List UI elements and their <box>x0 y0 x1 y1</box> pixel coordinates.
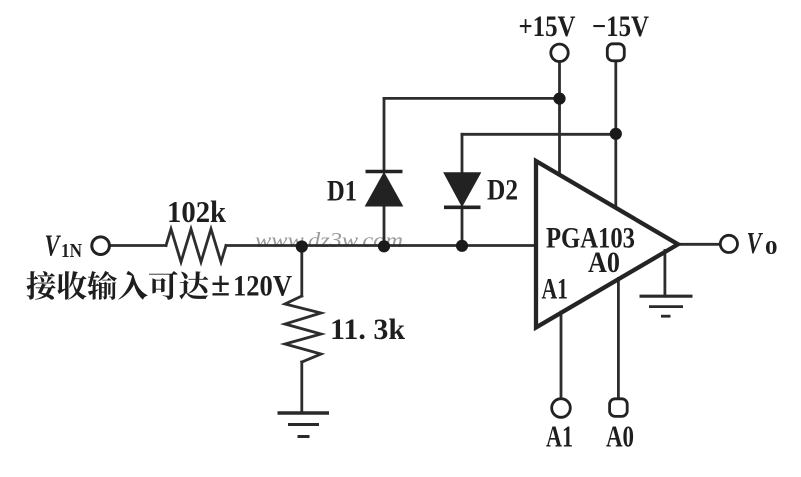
svg-text:D1: D1 <box>327 175 357 208</box>
svg-text:11. 3k: 11. 3k <box>330 313 405 346</box>
svg-text:−15V: −15V <box>592 10 649 43</box>
svg-text:A0: A0 <box>606 419 634 454</box>
wire: input to resistor R1 <box>109 244 166 247</box>
svg-text:V: V <box>747 225 764 260</box>
svg-text:1N: 1N <box>61 240 82 262</box>
terminal: V_IN <box>92 237 110 255</box>
wire: D2 top to -15V rail <box>462 133 616 136</box>
svg-text:102k: 102k <box>167 195 226 229</box>
wire: resistor R2 to ground <box>300 362 303 413</box>
resistor R1 102k <box>166 229 226 262</box>
wire: A1 pin down <box>560 312 563 398</box>
op-amp U1 PGA103 <box>536 161 678 328</box>
svg-text:+15V: +15V <box>519 10 576 43</box>
svg-text:±: ± <box>211 265 230 304</box>
svg-text:V: V <box>45 228 62 263</box>
wire: node to resistor R2 <box>300 247 303 297</box>
node: -15V / D2 junction <box>610 128 622 140</box>
note: 接收输入可达 (CJK glyph outlines) <box>27 271 209 300</box>
diode D1 <box>366 172 403 207</box>
wire: D2 bottom to node <box>461 207 464 246</box>
wire: op-amp output <box>678 243 720 246</box>
node: R2 junction <box>296 240 308 252</box>
wire: A0 pin down <box>617 279 620 399</box>
wire: -15V terminal down to op-amp <box>614 61 617 208</box>
terminal: +15V <box>551 44 568 61</box>
wire: D2 top up <box>461 134 464 173</box>
ground (output reference) <box>640 296 693 316</box>
terminal: A1 <box>552 399 571 418</box>
svg-text:A0: A0 <box>588 246 620 279</box>
terminal: -15V <box>607 44 624 61</box>
diode D2 <box>444 173 481 208</box>
node: D2 junction <box>456 240 468 252</box>
node: D1 junction <box>378 240 390 252</box>
wire: +15V terminal down to op-amp <box>558 62 561 176</box>
wire: output ref to ground <box>664 251 667 297</box>
wire: resistor R1 to op-amp input <box>226 244 536 247</box>
svg-text:120V: 120V <box>233 270 292 303</box>
svg-text:A1: A1 <box>542 273 569 306</box>
wire: D1 cathode up <box>383 98 386 171</box>
svg-text:D2: D2 <box>487 174 518 207</box>
terminal: A0 <box>610 399 628 417</box>
terminal: output V_O <box>720 235 737 252</box>
resistor R2 11.3k <box>285 296 321 362</box>
ground (under R2) <box>278 413 330 437</box>
wire: D1 anode to node <box>383 206 386 246</box>
svg-text:0: 0 <box>765 238 778 259</box>
node: +15V / D1 junction <box>553 93 565 105</box>
wire: D1 top to +15V rail <box>384 97 560 100</box>
svg-text:A1: A1 <box>546 419 573 454</box>
